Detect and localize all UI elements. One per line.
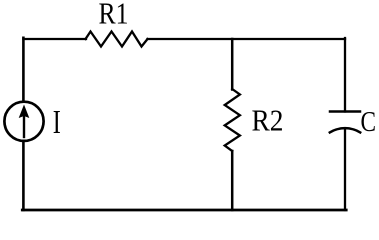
- wire right lower: [344, 130, 346, 211]
- svg-text:R1: R1: [99, 0, 129, 31]
- wire top-left segment: [23, 38, 86, 40]
- svg-text:R2: R2: [252, 103, 284, 138]
- current source arrowhead: [19, 105, 30, 119]
- svg-text:I: I: [53, 104, 61, 141]
- wire bottom: [22, 209, 346, 212]
- resistor R1: [86, 32, 148, 47]
- wire middle branch lower: [231, 151, 234, 210]
- capacitor C top plate: [330, 110, 360, 113]
- wire middle branch upper: [231, 39, 234, 90]
- wire right upper: [344, 38, 346, 112]
- current source U1 circle: [4, 102, 43, 141]
- wire top-right segment: [148, 38, 346, 40]
- wire left upper: [22, 38, 25, 101]
- wire left lower: [22, 142, 25, 211]
- capacitor C bottom plate: [330, 128, 360, 132]
- resistor R2: [225, 89, 240, 151]
- current source arrow shaft: [23, 110, 25, 137]
- svg-text:C: C: [361, 107, 377, 138]
